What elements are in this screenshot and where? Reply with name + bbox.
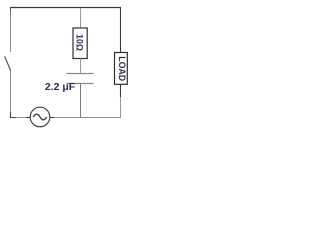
background	[0, 0, 138, 133]
wire top (node A)	[10, 7, 121, 9]
source lead left	[26, 117, 31, 119]
capacitor C1 bottom plate	[67, 83, 94, 85]
capacitor C1 top plate	[67, 73, 94, 75]
svg-text:LOAD: LOAD	[117, 56, 127, 81]
source lead right	[50, 117, 55, 119]
wire bottom main segment	[54, 117, 121, 119]
resistor R1 box	[73, 28, 87, 59]
wire resistor to capacitor	[80, 59, 82, 74]
svg-text:2.2 μF: 2.2 μF	[45, 81, 76, 93]
wire capacitor to bottom	[80, 84, 82, 118]
wire bottom left segment	[16, 117, 26, 119]
AC source sine wave	[33, 114, 46, 120]
wire left corner tip dark	[10, 8, 12, 12]
wire left vertical upper	[10, 8, 12, 53]
wire left vertical lower	[10, 71, 12, 113]
load lead bottom	[120, 84, 122, 97]
svg-text:10Ω: 10Ω	[75, 34, 85, 51]
wire right vertical upper	[120, 8, 122, 53]
AC source V1 (circle)	[30, 107, 50, 127]
wire middle branch top stub	[80, 8, 82, 28]
switch SW1 (open blade)	[5, 56, 11, 70]
wire left bottom corner (dark piece)	[11, 112, 18, 118]
wire right vertical lower	[120, 97, 122, 118]
load LD1 box	[115, 53, 128, 85]
